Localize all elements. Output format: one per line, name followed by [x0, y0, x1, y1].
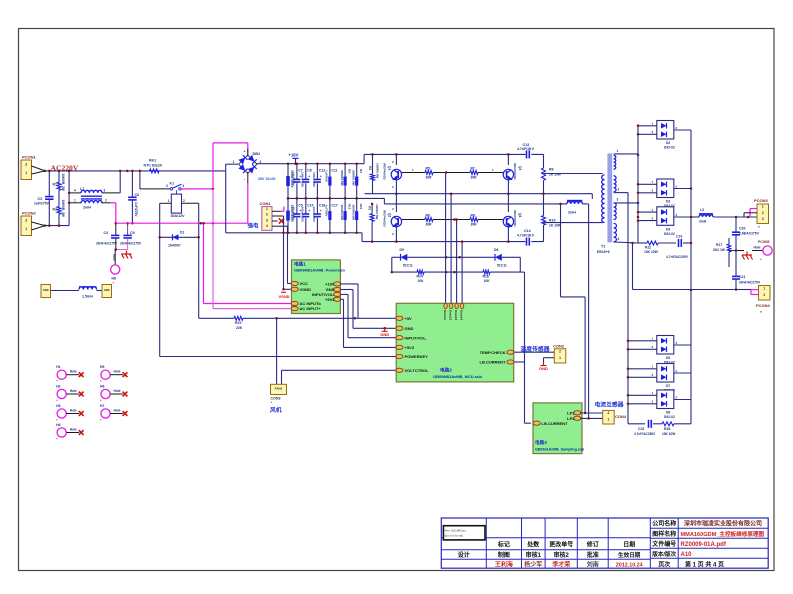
- svg-text:NTC 83x20: NTC 83x20: [144, 164, 162, 168]
- svg-text:3: 3: [104, 189, 106, 193]
- svg-text:1: 1: [25, 171, 27, 175]
- svg-text:杨少军: 杨少军: [524, 560, 542, 568]
- magenta wire bridge top loop: [213, 143, 248, 189]
- svg-text:300R/0.5W: 300R/0.5W: [352, 205, 356, 221]
- resistor R13: [340, 197, 352, 234]
- svg-text:1.5mH: 1.5mH: [82, 295, 93, 299]
- capacitor C19: [666, 235, 692, 260]
- connector PCON4: [756, 286, 771, 316]
- svg-text:C3: C3: [38, 197, 43, 201]
- svg-text:2: 2: [25, 218, 27, 222]
- svg-text:3: 3: [617, 198, 619, 202]
- svg-text:H1: H1: [56, 365, 60, 369]
- resistor R8: [453, 214, 503, 227]
- svg-text:*: *: [760, 310, 762, 315]
- resistor R16: [446, 257, 520, 283]
- hole H3: [56, 404, 83, 423]
- svg-text:2: 2: [266, 213, 268, 217]
- svg-text:K1: K1: [170, 182, 175, 186]
- svg-text:LB.CURRENT: LB.CURRENT: [480, 360, 507, 365]
- hole H6: [100, 385, 127, 404]
- svg-text:C6: C6: [135, 193, 140, 197]
- diode pack D8: [627, 390, 691, 419]
- svg-text:+: +: [308, 175, 310, 179]
- svg-text:1: 1: [762, 205, 764, 209]
- svg-text:30nF/AC275V: 30nF/AC275V: [120, 241, 142, 245]
- svg-text:文件编号: 文件编号: [651, 540, 676, 548]
- svg-text:GND: GND: [539, 366, 548, 371]
- svg-text:D4: D4: [666, 227, 670, 231]
- hole H1: [56, 365, 83, 384]
- svg-text:1uF/63V: 1uF/63V: [325, 170, 329, 183]
- svg-text:2: 2: [762, 211, 764, 215]
- connector CON4: [603, 410, 627, 424]
- svg-text:INPUT/VOL.: INPUT/VOL.: [405, 335, 427, 340]
- svg-text:Hole: Hole: [112, 254, 116, 261]
- svg-text:1M00R_2W: 1M00R_2W: [61, 200, 65, 218]
- wire fan connector feed: [277, 318, 397, 394]
- svg-text:2012.10.24: 2012.10.24: [616, 562, 643, 568]
- wire AC return to PCON4: [633, 288, 752, 291]
- svg-text:30R: 30R: [471, 176, 478, 180]
- svg-text:C19: C19: [676, 235, 682, 239]
- capacitor C7: [292, 162, 303, 199]
- subcircuit U3 sampling: [533, 403, 585, 454]
- svg-text:1: 1: [233, 160, 235, 164]
- svg-text:1uF/275V: 1uF/275V: [34, 202, 50, 206]
- capacitor C5: [292, 197, 303, 234]
- svg-text:-: -: [244, 177, 245, 181]
- svg-text:DB1: DB1: [253, 152, 261, 156]
- svg-text:D92-02: D92-02: [664, 415, 675, 419]
- svg-text:1: 1: [763, 286, 765, 290]
- svg-text:FAN1: FAN1: [275, 386, 283, 390]
- svg-text:D7: D7: [666, 384, 670, 388]
- svg-text:10uF/25V: 10uF/25V: [292, 207, 296, 222]
- svg-text:RK1: RK1: [149, 159, 156, 163]
- transistor Q2: [383, 194, 402, 243]
- wire CON1 pins: [272, 211, 288, 226]
- resistor R10: [542, 192, 562, 241]
- svg-text:C17: C17: [331, 203, 337, 207]
- svg-text:1: 1: [168, 199, 170, 203]
- svg-text:CON1: CON1: [260, 201, 272, 206]
- svg-text:+: +: [244, 150, 246, 154]
- svg-text:H2: H2: [56, 385, 60, 389]
- svg-text:10K 10W: 10K 10W: [644, 250, 659, 254]
- svg-text:2: 2: [25, 162, 27, 166]
- capacitor C8: [301, 162, 312, 199]
- svg-text:A10: A10: [681, 552, 693, 558]
- svg-text:公司名称: 公司名称: [652, 520, 676, 528]
- svg-text:R8: R8: [471, 214, 475, 218]
- svg-text:30nF/AC275V: 30nF/AC275V: [739, 281, 761, 285]
- svg-text:D5: D5: [666, 356, 670, 360]
- svg-text:H4: H4: [56, 423, 60, 427]
- bridge rectifier DB1: [233, 150, 276, 182]
- svg-text:李才荣: 李才荣: [551, 560, 570, 568]
- svg-text:10K 10W: 10K 10W: [662, 432, 675, 436]
- svg-text:R17: R17: [716, 243, 722, 247]
- svg-text:(do not found): (do not found): [445, 534, 464, 538]
- svg-text:1: 1: [559, 356, 561, 360]
- svg-text:VCC: VCC: [300, 281, 309, 286]
- svg-text:2mH: 2mH: [83, 206, 91, 210]
- capacitor C20: [732, 217, 760, 251]
- resistor K3: [368, 203, 380, 243]
- svg-text:IRGP4063D: IRGP4063D: [383, 163, 387, 180]
- thermistor RK1: [126, 159, 162, 173]
- connector PCON2: [21, 211, 37, 236]
- wire drive lines to U2: [446, 173, 464, 304]
- svg-text:Hole: Hole: [114, 409, 121, 413]
- svg-text:LB.CURRENT: LB.CURRENT: [542, 421, 569, 426]
- svg-text:C11: C11: [331, 169, 337, 173]
- svg-text:修订: 修订: [586, 541, 599, 549]
- svg-text:100R/0.5W: 100R/0.5W: [375, 204, 379, 220]
- svg-text:R16: R16: [483, 275, 489, 279]
- svg-text:POWERKEY: POWERKEY: [405, 354, 429, 359]
- capacitor C9: [120, 222, 142, 250]
- wire U1 outputs to U2: [340, 284, 396, 348]
- svg-text:1uF/63V: 1uF/63V: [325, 205, 329, 218]
- wire power key line: [160, 356, 397, 358]
- svg-text:C12: C12: [319, 169, 325, 173]
- svg-text:100R/0.5W: 100R/0.5W: [376, 163, 380, 179]
- label 电流互感器: [595, 401, 624, 409]
- svg-text:22K: 22K: [236, 326, 243, 330]
- svg-text:L3: L3: [700, 208, 704, 212]
- svg-text:王利海: 王利海: [495, 560, 513, 568]
- hole H2: [56, 385, 83, 404]
- svg-text:C20: C20: [739, 227, 745, 231]
- net label AC220V: [51, 163, 79, 172]
- svg-text:GND: GND: [380, 332, 389, 337]
- power symbol VGND red: [279, 288, 290, 299]
- svg-text:批准: 批准: [587, 551, 599, 559]
- capacitor C2: [286, 162, 294, 199]
- svg-text:D3: D3: [666, 200, 670, 204]
- diode D9: [392, 248, 461, 268]
- svg-text:温度传感器: 温度传感器: [521, 345, 550, 353]
- svg-text:1: 1: [74, 198, 76, 202]
- svg-text:R10: R10: [549, 219, 555, 223]
- svg-text:Hole: Hole: [70, 389, 77, 393]
- svg-text:+5V3: +5V3: [325, 297, 335, 302]
- relay K1 coil: [160, 194, 199, 218]
- svg-text:C21: C21: [739, 275, 745, 279]
- wire K1 pin4 magenta: [181, 188, 214, 191]
- wire PCON2 pins to node: [32, 222, 47, 230]
- wire DC rails: [226, 154, 567, 241]
- magenta stub CON1 pin1: [281, 207, 284, 212]
- wire relay columns: [160, 203, 199, 356]
- svg-text:R9: R9: [549, 168, 554, 172]
- svg-text:2: 2: [183, 199, 185, 203]
- capacitor C17: [325, 197, 338, 234]
- svg-text:K3: K3: [368, 206, 372, 210]
- capacitor C10: [301, 197, 314, 234]
- transistor Q1: [383, 153, 402, 194]
- wire bridge AC feed: [226, 164, 238, 233]
- wire IGBT output rail: [365, 192, 593, 195]
- svg-text:MMA160GDM_主控板维修原理图: MMA160GDM_主控板维修原理图: [681, 530, 765, 538]
- svg-text:1: 1: [608, 417, 610, 421]
- wire L1 pin3 up to AC line: [102, 170, 121, 193]
- capacitor C22: [628, 420, 662, 436]
- svg-text:GND: GND: [104, 288, 110, 292]
- svg-text:版本/版次: 版本/版次: [651, 550, 676, 558]
- wire C4 C9 junction: [115, 248, 128, 251]
- wire secondary pin2 down: [614, 193, 628, 424]
- wire AC return tap: [631, 242, 634, 290]
- wire primary feed: [544, 174, 603, 223]
- connector PCON1: [21, 155, 37, 180]
- wire temp sensor: [514, 352, 554, 362]
- wire bridge top pin: [247, 149, 249, 156]
- label 风机: [270, 406, 282, 414]
- svg-text:D6: D6: [494, 248, 498, 252]
- terminal GND2: [102, 285, 112, 298]
- svg-text:C13: C13: [523, 143, 530, 147]
- svg-text:R7: R7: [471, 167, 475, 171]
- capacitor C11: [325, 162, 338, 199]
- magenta wire bridge bottom: [247, 172, 249, 223]
- svg-text:GND: GND: [405, 326, 414, 331]
- resistor R4: [352, 162, 364, 199]
- resistor R12: [199, 316, 397, 330]
- svg-text:100uF/25V: 100uF/25V: [312, 172, 316, 188]
- capacitor C6: [128, 170, 139, 225]
- svg-text:R3: R3: [348, 169, 352, 173]
- wire CON1 to U1 supply: [282, 216, 292, 289]
- svg-text:1: 1: [25, 227, 27, 231]
- no-connect X CON1 pin3: [279, 218, 284, 223]
- svg-text:H7: H7: [100, 404, 104, 408]
- svg-text:Drive12: Drive12: [449, 310, 453, 321]
- svg-text:GB09M81AvMB_MCU.sub: GB09M81AvMB_MCU.sub: [433, 374, 483, 379]
- svg-text:35V 10=00: 35V 10=00: [258, 177, 276, 181]
- connector CON1: [260, 201, 273, 230]
- wire secondary pin3 to bus: [614, 202, 640, 205]
- svg-text:+5V: +5V: [405, 316, 413, 321]
- svg-text:D9: D9: [400, 248, 404, 252]
- capacitor C16: [312, 197, 325, 234]
- svg-text:Hole: Hole: [754, 246, 761, 250]
- svg-text:R14: R14: [417, 275, 423, 279]
- svg-text:Drive13: Drive13: [454, 310, 458, 321]
- svg-text:100uF/25V: 100uF/25V: [301, 172, 305, 188]
- capacitor C14: [517, 229, 535, 246]
- connector PCON3: [754, 198, 769, 230]
- hole H7: [100, 404, 127, 423]
- magenta stub PCON4: [751, 290, 759, 295]
- svg-text:强电: 强电: [248, 222, 260, 230]
- capacitor C3: [34, 197, 54, 206]
- hole H5: [100, 365, 127, 384]
- resistor R18: [662, 422, 691, 436]
- svg-text:标记: 标记: [497, 541, 510, 549]
- capacitor C4: [96, 223, 119, 249]
- svg-text:VGND: VGND: [279, 295, 290, 299]
- power node +18V: [289, 153, 299, 165]
- wire pan coil loop: [559, 203, 588, 419]
- wire secondary pin4: [614, 242, 638, 243]
- diode pack D7: [627, 364, 691, 393]
- diode D1 1N4007: [158, 231, 200, 248]
- svg-text:4: 4: [74, 189, 76, 193]
- svg-text:T1: T1: [601, 245, 605, 249]
- svg-text:GND: GND: [43, 288, 49, 292]
- resistor R3: [340, 162, 352, 199]
- svg-text:VOLTCTROL: VOLTCTROL: [405, 368, 430, 373]
- svg-text:CON2: CON2: [553, 344, 565, 349]
- svg-text:R13: R13: [348, 204, 352, 210]
- svg-text:制图: 制图: [498, 551, 510, 559]
- svg-text:1: 1: [617, 149, 619, 153]
- svg-text:2K2 1W: 2K2 1W: [713, 248, 726, 252]
- svg-text:1N4007: 1N4007: [168, 244, 181, 248]
- label 强电: [248, 222, 260, 230]
- hole H8: [111, 250, 120, 286]
- svg-text:2: 2: [763, 293, 765, 297]
- subcircuit U2 MCU: [396, 303, 514, 382]
- svg-text:GB09d1AvMB_Sampling.sub: GB09d1AvMB_Sampling.sub: [535, 447, 585, 451]
- svg-text:R4: R4: [359, 169, 363, 173]
- svg-text:H6: H6: [100, 385, 104, 389]
- diode pack D4: [637, 207, 691, 236]
- svg-text:10uF/25V: 10uF/25V: [292, 172, 296, 187]
- power symbol GND U2: [380, 327, 389, 337]
- svg-text:C16: C16: [319, 203, 325, 207]
- transformer T1: [597, 149, 620, 254]
- magenta stub PCON3: [744, 209, 757, 218]
- svg-text:H3: H3: [56, 404, 60, 408]
- inductor L4 2mH: [567, 201, 582, 215]
- transistor Q3: [503, 153, 522, 194]
- svg-text:4: 4: [618, 237, 620, 241]
- svg-text:PCON1: PCON1: [22, 155, 37, 160]
- transistor Q4: [503, 194, 522, 243]
- svg-text:R6: R6: [426, 214, 430, 218]
- svg-text:2: 2: [559, 350, 561, 354]
- diode D6: [460, 248, 520, 268]
- svg-text:300R/0.5W: 300R/0.5W: [340, 170, 344, 186]
- svg-text:更改单号: 更改单号: [549, 541, 573, 549]
- svg-text:4.7nF/AC250V: 4.7nF/AC250V: [634, 432, 656, 436]
- svg-text:R11: R11: [645, 246, 651, 250]
- capacitor C12: [312, 162, 325, 199]
- hole PCON5: [752, 240, 772, 262]
- wire gate network to sampling: [520, 272, 524, 423]
- resistor R17: [713, 238, 736, 267]
- svg-text:图样名称: 图样名称: [652, 530, 676, 538]
- svg-text:10K: 10K: [484, 279, 491, 283]
- label 温度传感器: [521, 345, 550, 353]
- svg-text:EE16+6: EE16+6: [597, 250, 610, 254]
- svg-text:+: +: [320, 175, 322, 179]
- connector CON3 fan: [271, 384, 287, 405]
- svg-text:100uF/25V: 100uF/25V: [312, 207, 316, 223]
- svg-text:电流互感器: 电流互感器: [595, 401, 624, 409]
- resistor R5: [402, 167, 446, 180]
- wire LB current: [514, 362, 531, 423]
- wire LP1 LP2 to CON4: [580, 412, 603, 420]
- wire secondary pin1: [614, 154, 640, 157]
- svg-text:51C11: 51C11: [403, 264, 413, 268]
- svg-text:电路3: 电路3: [535, 439, 547, 446]
- svg-text:C8: C8: [307, 169, 311, 173]
- svg-text:10K: 10K: [418, 279, 425, 283]
- svg-text:30nF/AC275V: 30nF/AC275V: [96, 241, 118, 245]
- resistor R2: [53, 200, 65, 218]
- connector CON2: [553, 344, 566, 364]
- earth ground output: [736, 251, 753, 260]
- hole H4: [56, 423, 83, 442]
- svg-text:3: 3: [166, 184, 168, 188]
- svg-text:+: +: [320, 209, 322, 213]
- svg-text:处数: 处数: [526, 541, 540, 549]
- svg-text:D92-02: D92-02: [664, 232, 675, 236]
- diode pack D5: [627, 336, 691, 365]
- resistor R15: [352, 197, 364, 234]
- svg-text:IRGP4063D: IRGP4063D: [513, 163, 517, 180]
- svg-text:C4: C4: [104, 231, 109, 235]
- svg-text:设计: 设计: [458, 551, 470, 559]
- svg-text:D8: D8: [666, 411, 670, 415]
- power symbol GND CON2: [539, 363, 548, 372]
- svg-text:+5V3: +5V3: [405, 345, 415, 350]
- magenta wire to U1 AC inputs: [202, 189, 292, 309]
- svg-text:K2: K2: [368, 166, 372, 170]
- svg-text:审核1: 审核1: [526, 551, 542, 559]
- svg-text:PCON2: PCON2: [22, 211, 37, 216]
- svg-text:刘南: 刘南: [587, 560, 599, 568]
- svg-text:Hole: Hole: [114, 389, 121, 393]
- svg-text:Drive11: Drive11: [443, 310, 447, 320]
- svg-text:Hole: Hole: [70, 370, 77, 374]
- svg-text:D1: D1: [180, 231, 184, 235]
- svg-text:IRGP4063D: IRGP4063D: [383, 210, 387, 227]
- svg-text:4: 4: [183, 184, 185, 188]
- wire rectifier left bus: [637, 124, 640, 243]
- svg-text:3: 3: [762, 217, 764, 221]
- svg-text:PCON5: PCON5: [758, 240, 770, 244]
- svg-text:Q2: Q2: [388, 213, 392, 217]
- diode pack D2: [637, 121, 691, 150]
- resistor K2: [368, 153, 380, 194]
- svg-text:1M00R_2W: 1M00R_2W: [61, 174, 65, 192]
- svg-text:深圳市瑞凌实业股份有限公司: 深圳市瑞凌实业股份有限公司: [684, 520, 762, 528]
- svg-text:R12: R12: [235, 321, 241, 325]
- title block: [441, 518, 768, 568]
- svg-text:1uF/275V: 1uF/275V: [134, 202, 138, 217]
- capacitor C21: [732, 249, 761, 290]
- svg-text:Q3: Q3: [518, 166, 522, 170]
- svg-text:LP2: LP2: [567, 416, 575, 421]
- wire input ladder: [45, 170, 226, 227]
- svg-text:D2: D2: [666, 141, 670, 145]
- svg-text:*: *: [758, 225, 760, 230]
- svg-text:RZ0009-01A.pdf: RZ0009-01A.pdf: [681, 542, 727, 548]
- svg-text:2mH: 2mH: [568, 211, 576, 215]
- svg-text:3: 3: [266, 218, 268, 222]
- svg-text:1: 1: [266, 207, 268, 211]
- svg-text:电路1: 电路1: [294, 261, 306, 268]
- svg-text:PCON3: PCON3: [754, 198, 769, 203]
- resistor R11: [638, 241, 676, 254]
- svg-text:R15: R15: [359, 204, 363, 210]
